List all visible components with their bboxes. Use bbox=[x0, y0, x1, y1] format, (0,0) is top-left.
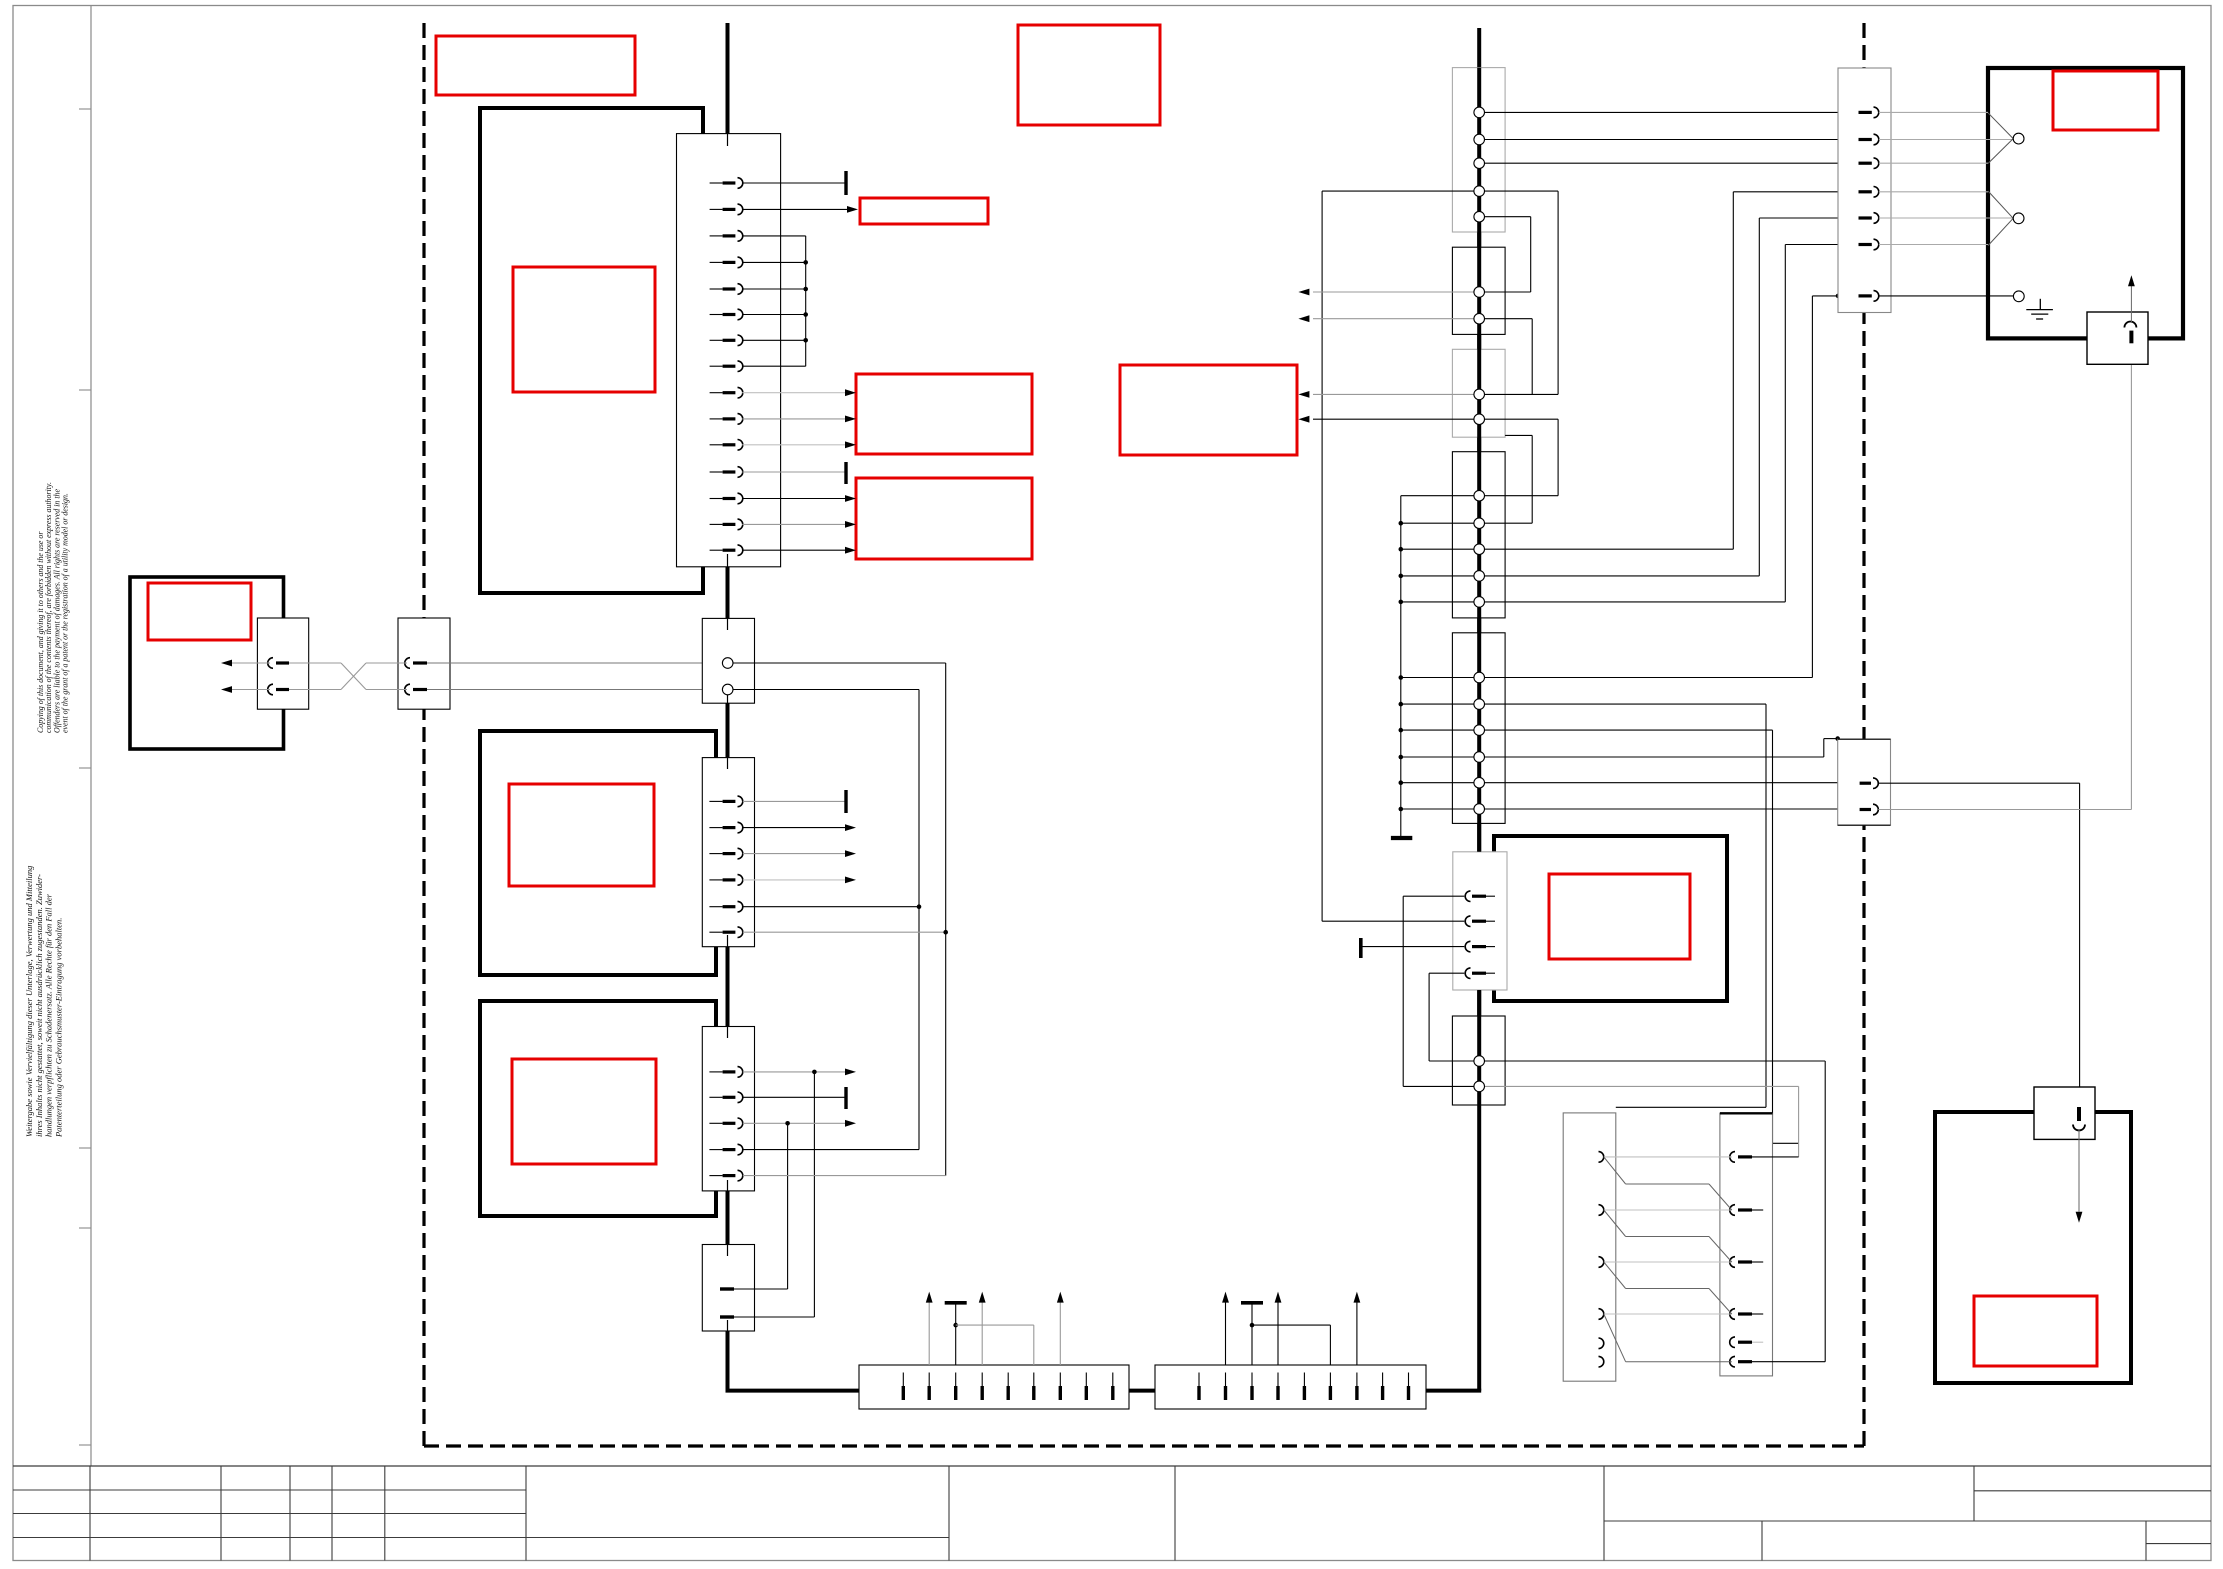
terminator bar bbox=[1359, 938, 1363, 958]
wire e2 run to matrix bbox=[1485, 703, 1767, 705]
wire c14 to X20.6 bbox=[1485, 601, 1786, 603]
wire X12.5 junction bbox=[743, 906, 919, 908]
crossed pair wires X2-X3 bbox=[289, 662, 341, 664]
wire link c11 bbox=[1505, 434, 1532, 436]
wire X10.5 bbox=[742, 288, 806, 290]
X16 branch wire to pin6 bbox=[1252, 1324, 1330, 1326]
matrix cross link 4-6 bbox=[1604, 1314, 1626, 1362]
X16 termination over pin3 bbox=[1241, 1301, 1263, 1305]
destination label field middle bbox=[1120, 365, 1297, 455]
wire X10.1 to termination bbox=[742, 182, 846, 184]
collector branch wire bbox=[1401, 575, 1474, 577]
matrix pin1 wire bbox=[1752, 1156, 1799, 1158]
collector branch wire bbox=[1401, 756, 1474, 758]
output arrow X2.2 bbox=[232, 689, 270, 691]
bus link between strips bbox=[1129, 1389, 1155, 1393]
wire c8 bbox=[1485, 393, 1559, 395]
wire c1 to X20.1 bbox=[1485, 111, 1859, 113]
main bus wire left (vertical) bbox=[726, 23, 730, 1391]
header block G bbox=[1452, 1016, 1505, 1105]
header block B bbox=[1452, 247, 1505, 334]
matrix row wires bbox=[1604, 1156, 1732, 1158]
label field bbox=[148, 583, 251, 640]
dashed harness boundary bottom bbox=[424, 1444, 1864, 1447]
X16 wire pin4 arrow up bbox=[1277, 1300, 1279, 1365]
wire X10.10 to label A bbox=[742, 418, 847, 420]
wire X12.6 junction bbox=[743, 931, 946, 933]
X13 pins 1-5 bbox=[709, 1067, 742, 1181]
X14 contact 1 bbox=[720, 1287, 734, 1290]
connector X19 (4 sockets) bbox=[1453, 852, 1507, 990]
wire e4 to boundary connector bbox=[1485, 756, 1824, 758]
matrix left pins bbox=[1599, 1152, 1604, 1367]
X20 pins 1-7 bbox=[1859, 107, 1879, 301]
wire g2 left bbox=[1403, 1085, 1474, 1087]
wire c10 bbox=[1485, 495, 1559, 497]
frame zone tick marks bbox=[79, 109, 91, 1445]
destination label field B bbox=[856, 478, 1032, 559]
wire e5 to X21.1 bbox=[1485, 782, 1859, 784]
header block A bbox=[1452, 68, 1505, 232]
plug/jack symbol at antenna box bbox=[2034, 1087, 2095, 1139]
wire X19.1 branch bbox=[1403, 895, 1464, 897]
wire g1 to matrix right pin6 bbox=[1485, 1060, 1826, 1062]
loudspeaker symbol 1 bbox=[1988, 113, 2013, 139]
X14 contact 2 bbox=[720, 1315, 734, 1318]
ground arrows to label (gray) bbox=[1313, 291, 1474, 293]
X21 pin 2 bbox=[1860, 808, 1871, 811]
cable designation field top-middle bbox=[1018, 25, 1160, 125]
wire g1 left bbox=[1429, 1060, 1474, 1062]
copyright notice (english, rotated) bbox=[36, 482, 70, 733]
cable designation field top-left bbox=[436, 36, 635, 95]
X15 termination over pin3 bbox=[945, 1301, 967, 1305]
connector X12 (6-pin strip) bbox=[702, 758, 754, 947]
wire X21.2 to speaker feed bbox=[1878, 809, 2131, 811]
connector X13 (5-pin strip) bbox=[702, 1027, 754, 1191]
wire c2 to X20.2 bbox=[1485, 139, 1859, 141]
X15 terminal pins bbox=[903, 1373, 1113, 1401]
ground terminal circle bbox=[2013, 291, 2024, 302]
collector branch wire bbox=[1401, 522, 1474, 524]
wire X13.2 to termination bbox=[743, 1096, 846, 1098]
ground symbol bbox=[2039, 299, 2041, 310]
main bus wire right (vertical) bbox=[1477, 28, 1481, 1391]
header block C bbox=[1452, 349, 1505, 437]
X16 terminal pins bbox=[1199, 1373, 1409, 1401]
heavy bus restated (above X19) bbox=[1477, 68, 1481, 852]
main bus wire right (bottom elbow) bbox=[1426, 1389, 1481, 1393]
label field bbox=[509, 784, 654, 886]
connector X20 (7-pin strip) bbox=[1838, 68, 1891, 313]
wire X10.4 bbox=[742, 261, 806, 263]
dashed harness boundary left bbox=[422, 23, 425, 1446]
wire X19.3 termination bbox=[1361, 946, 1465, 948]
connector X14 (2 contacts) bbox=[702, 1245, 754, 1332]
label field bbox=[2053, 71, 2158, 130]
wire X10.13 to label B bbox=[742, 498, 847, 500]
frame inner margin line bbox=[90, 6, 92, 1467]
dashed harness boundary right bbox=[1862, 23, 1865, 1446]
collector bus at left of column bbox=[1400, 496, 1402, 837]
X15 wire pin2 arrow up bbox=[928, 1300, 930, 1365]
matrix right strip top edge bbox=[1720, 1112, 1773, 1114]
terminal strip X15 bbox=[859, 1365, 1129, 1409]
heavy bus restated (below X19) bbox=[1477, 990, 1481, 1105]
wire X13.5 bbox=[743, 1175, 946, 1177]
relay box mid-right bbox=[1494, 836, 1727, 1001]
connector X10 (15-pin strip) bbox=[677, 134, 781, 567]
wire link c7-c8 bbox=[1485, 318, 1533, 320]
matrix cross link 1-2 bbox=[1604, 1157, 1626, 1184]
X19 pins 1-4 bbox=[1465, 891, 1495, 979]
collector branch wire bbox=[1401, 808, 1474, 810]
wire X12.1 to termination bbox=[743, 800, 846, 802]
title block grid bbox=[13, 1466, 2211, 1561]
module box lower-left bbox=[480, 1001, 716, 1216]
terminator bar bbox=[844, 1087, 847, 1109]
label field bbox=[513, 267, 655, 392]
wire X14.1 bbox=[734, 1288, 788, 1290]
wire X10.2 to label bbox=[742, 208, 848, 210]
wire c10 left bbox=[1401, 495, 1474, 497]
signal label field bbox=[860, 198, 988, 224]
X15 wire pin3 bbox=[955, 1303, 957, 1365]
terminator bar bbox=[844, 462, 847, 484]
connector X21 (2-pin, on boundary) bbox=[1838, 739, 1891, 825]
wire link c9-c10 bbox=[1485, 418, 1559, 420]
connector X11 (2 sockets) bbox=[702, 618, 754, 703]
wire net c4 long run bbox=[1322, 190, 1558, 192]
header socket circles bbox=[1474, 107, 1485, 1092]
X15 branch wire to pin6 bbox=[956, 1324, 1034, 1326]
matrix pin6 wire bbox=[1752, 1361, 1825, 1363]
wire c13 to X20.5 bbox=[1485, 575, 1760, 577]
destination label field A bbox=[856, 374, 1032, 454]
wire X12.2 arrow bbox=[743, 827, 847, 829]
signal arrow up bbox=[2130, 285, 2132, 322]
header block D bbox=[1452, 452, 1505, 618]
matrix strip right bbox=[1720, 1113, 1773, 1376]
label field bbox=[1974, 1296, 2097, 1366]
collector branch wire bbox=[1401, 677, 1474, 679]
X15 wire pin4 arrow up bbox=[981, 1300, 983, 1365]
wire X14.2 bbox=[734, 1316, 814, 1318]
wire c12 to X20.4 bbox=[1485, 548, 1734, 550]
matrix cross link 2-3 bbox=[1604, 1210, 1626, 1237]
wire c3 to X20.3 bbox=[1485, 162, 1859, 164]
wire e6 to X21.2 bbox=[1485, 808, 1859, 810]
label field bbox=[512, 1059, 656, 1164]
X12 pins 1-6 bbox=[709, 796, 742, 937]
wire X11.1 long run right bbox=[733, 662, 946, 664]
terminator bar bbox=[844, 171, 847, 195]
collector branch wire bbox=[1401, 601, 1474, 603]
pair wires X3 to X11 bbox=[427, 662, 722, 664]
X20 outgoing wires to sounder bbox=[1879, 111, 1988, 113]
wire X11.2 long run right bbox=[733, 689, 919, 691]
wire X12.4 arrow bbox=[743, 879, 847, 881]
collector branch wire bbox=[1401, 703, 1474, 705]
antenna box bottom-right bbox=[1935, 1112, 2131, 1383]
wire X21.1 to antenna feed bbox=[1878, 782, 2079, 784]
branch wire down to X14.2 bbox=[813, 1072, 815, 1317]
wire X10.15 to label B bbox=[742, 549, 847, 551]
copyright notice (german, rotated) bbox=[24, 866, 63, 1138]
wire X19.4 branch bbox=[1429, 972, 1464, 974]
X11 socket 2 bbox=[722, 684, 733, 695]
branch wire down to X14.1 bbox=[787, 1123, 789, 1289]
bus stub into X10 bbox=[727, 134, 729, 146]
X10 pins 1-15 bbox=[710, 178, 743, 556]
wire X10.12 to termination bbox=[742, 471, 846, 473]
terminal strip X16 bbox=[1155, 1365, 1426, 1409]
X2 pin 1 bbox=[268, 658, 273, 669]
collector branch wire bbox=[1401, 548, 1474, 550]
svg-text:Weitergabe sowie Vervielfältig: Weitergabe sowie Vervielfältigung dieser… bbox=[24, 866, 34, 1137]
wire X10.8 bbox=[742, 365, 806, 367]
loudspeaker/alarm box top-right bbox=[1988, 68, 2183, 338]
X3 pin 1 bbox=[405, 658, 410, 669]
main bus wire left (bottom elbow) bbox=[726, 1389, 860, 1393]
module box mid-left bbox=[480, 731, 716, 975]
signal arrow down bbox=[2078, 1129, 2080, 1212]
X16 wire pin2 arrow up bbox=[1225, 1300, 1227, 1365]
wire X13.4 bbox=[743, 1149, 919, 1151]
matrix right pin stubs bbox=[1752, 1209, 1763, 1211]
wire X10.6 bbox=[742, 314, 806, 316]
wire X10.11 to label A bbox=[742, 444, 847, 446]
terminator bar bbox=[844, 790, 847, 813]
wire link c5-c6 bbox=[1485, 216, 1531, 218]
matrix cross link 3-4 bbox=[1604, 1262, 1626, 1289]
plug/jack symbol at sounder bbox=[2087, 312, 2148, 364]
X16 wire pin7 arrow up bbox=[1356, 1300, 1358, 1365]
connector X3 at boundary bbox=[398, 618, 450, 709]
X11 socket 1 bbox=[722, 658, 733, 669]
wire g2 to matrix right pin1 bbox=[1485, 1085, 1799, 1087]
wire X10.7 bbox=[742, 339, 806, 341]
X15 wire pin7 arrow up bbox=[1059, 1300, 1061, 1365]
svg-text:ihres Inhalts nicht gestattet,: ihres Inhalts nicht gestattet, soweit ni… bbox=[34, 874, 44, 1137]
wire e1 to X20.7 bbox=[1485, 677, 1813, 679]
output arrow X2.1 bbox=[232, 662, 270, 664]
connector X2 on display unit bbox=[257, 618, 308, 709]
X20.7 wire to ground point bbox=[1879, 295, 2014, 297]
wire X13.1 arrow with branch bbox=[743, 1071, 847, 1073]
wire e3 run to matrix bbox=[1485, 729, 1773, 731]
bus terminator bar bbox=[1391, 836, 1412, 840]
wire X13.3 arrow with branch bbox=[743, 1122, 847, 1124]
matrix right pins bbox=[1730, 1152, 1752, 1367]
svg-text:event of the grant of a patent: event of the grant of a patent or the re… bbox=[61, 493, 70, 733]
collector branch wire bbox=[1401, 729, 1474, 731]
header block E bbox=[1452, 633, 1505, 824]
collector branch wire bbox=[1401, 782, 1474, 784]
ECU module box top-left bbox=[480, 108, 703, 593]
wire X12.3 arrow bbox=[743, 853, 847, 855]
wire X19.2 bbox=[1322, 920, 1464, 922]
X16 wire pin3 bbox=[1251, 1303, 1253, 1365]
loudspeaker symbol 2 bbox=[1988, 191, 2013, 218]
svg-text:Patenterteilung oder Gebrauchs: Patenterteilung oder Gebrauchsmuster-Ein… bbox=[53, 918, 63, 1138]
svg-text:handlungen verpflichten zu Sch: handlungen verpflichten zu Schadenersatz… bbox=[44, 893, 54, 1137]
X21 pin 1 bbox=[1860, 782, 1871, 785]
wire X10.9 to label A bbox=[742, 392, 847, 394]
device box left (display unit) bbox=[130, 577, 284, 749]
wire X10.3 bridge bus bbox=[742, 235, 806, 237]
wire X10.14 to label B bbox=[742, 523, 847, 525]
X2 pin 2 bbox=[268, 684, 273, 695]
matrix strip left bbox=[1563, 1113, 1616, 1381]
label field bbox=[1549, 874, 1690, 959]
X3 pin 2 bbox=[405, 684, 410, 695]
